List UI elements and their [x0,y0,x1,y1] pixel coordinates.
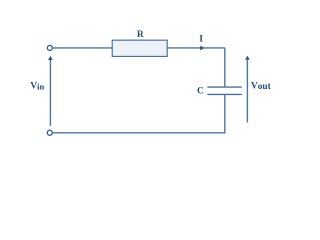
current arrowhead I on top wire [200,46,204,51]
wire top-left: input terminal to resistor [53,47,112,49]
Vout arrowhead [245,56,250,60]
svg-text:Vin: Vin [30,81,44,91]
svg-text:I: I [199,35,203,45]
capacitor C bottom plate [207,93,241,95]
wire top-right: resistor to corner node [167,47,225,49]
svg-text:R: R [137,30,144,40]
wire right vertical lower: capacitor bottom plate to bottom wire [224,94,226,133]
input terminal bottom-left [47,130,52,135]
wire right vertical upper: corner to capacitor top plate [224,48,226,87]
Vin arrowhead [48,56,53,60]
resistor R box [112,40,167,56]
Vin arrow shaft [49,60,51,126]
svg-text:C: C [197,87,204,97]
svg-text:Vout: Vout [251,81,272,92]
input terminal top-left [47,45,52,50]
Vout arrow shaft [246,60,248,123]
wire bottom: input terminal to right corner [53,132,225,134]
capacitor C top plate [207,86,241,88]
